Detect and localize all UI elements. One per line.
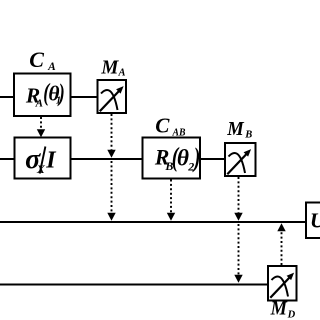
svg-text:C: C xyxy=(155,114,170,138)
classical control MA continues to wire3 xyxy=(107,161,115,221)
svg-text:M: M xyxy=(226,118,244,140)
wire xyxy=(0,284,268,286)
gate RB box xyxy=(143,138,201,179)
classical control RB to wire3 xyxy=(167,180,175,221)
wire xyxy=(0,158,15,160)
label CAB xyxy=(155,114,185,139)
label MD xyxy=(270,298,296,320)
classical control MB continues to wire4 xyxy=(234,224,242,283)
svg-text:M: M xyxy=(270,298,288,320)
gate U box (cut off at right edge) xyxy=(306,203,320,239)
measurement MA box xyxy=(98,80,127,113)
svg-text:): ) xyxy=(57,79,64,107)
svg-text:A: A xyxy=(118,67,126,78)
wire xyxy=(0,96,14,98)
measurement MB meter xyxy=(227,149,251,174)
gate sigmaX/I box xyxy=(15,138,71,179)
gate RA box xyxy=(14,74,71,117)
svg-text:B: B xyxy=(244,129,252,140)
wire xyxy=(71,158,143,160)
measurement MA meter xyxy=(100,86,124,111)
classical control RA to sigmaX xyxy=(37,117,45,137)
measurement MD meter xyxy=(270,273,294,298)
svg-text:D: D xyxy=(287,309,296,320)
svg-text:C: C xyxy=(29,47,44,72)
svg-text:M: M xyxy=(100,57,119,79)
classical control MD up to wire3 xyxy=(277,223,285,265)
svg-text:): ) xyxy=(192,142,201,172)
gate RB label xyxy=(154,142,201,174)
label CA xyxy=(29,47,56,73)
gate sigmaX/I label xyxy=(25,144,57,176)
label MA xyxy=(100,57,125,79)
measurement MB box xyxy=(225,143,256,176)
label MB xyxy=(226,118,252,140)
wire xyxy=(0,221,306,223)
wire xyxy=(71,96,98,98)
svg-text:θ: θ xyxy=(177,146,189,172)
svg-text:A: A xyxy=(47,61,56,73)
svg-text:AB: AB xyxy=(172,127,186,139)
classical control MB to wire3 xyxy=(234,177,242,221)
wire xyxy=(200,158,225,160)
svg-text:I: I xyxy=(45,147,57,173)
measurement MD box xyxy=(268,266,297,301)
gate RA label xyxy=(25,79,65,110)
svg-text:U: U xyxy=(310,208,320,232)
classical control MA to wire2 xyxy=(107,114,115,158)
svg-text:A: A xyxy=(35,97,43,109)
